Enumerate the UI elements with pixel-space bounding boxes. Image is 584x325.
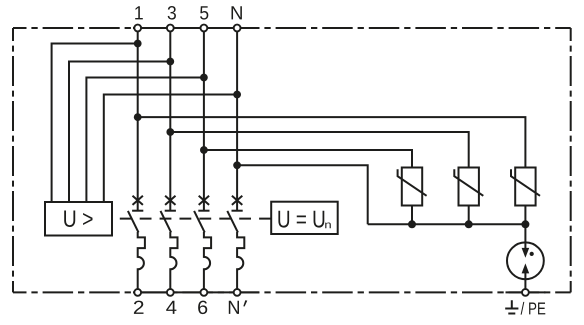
varistor MOV1 body [402,168,422,206]
wire: solid bottom border segment through terminals 2-4-6-N&#180; [133,291,259,293]
label terminal 4 [166,301,176,314]
enclosure boundary bottom edge [13,291,571,293]
breaker pole 3: fixed contact tick [198,210,209,212]
node: junction on line 5 (left tap) [200,74,208,82]
enclosure boundary left edge [12,28,14,292]
breaker pole 1: opening cross [133,196,143,205]
label terminal 6 [198,301,207,314]
node: junction on line 1 (right tap) [134,113,142,121]
voltage indicator U=Un box [271,202,338,234]
label U = Un [278,211,324,228]
wire: solid bottom border segment at PE terminal [506,291,546,293]
breaker pole 3: opening cross [199,196,209,205]
terminal N&#180; (bottom) [234,289,241,296]
node: junction on line 1 (left tap) [134,40,142,48]
terminal PE (bottom) [522,289,529,296]
wire: tap from line 5 to U&gt; monitor [86,78,203,203]
breaker pole 4: switch blade [227,211,238,233]
breaker pole 2: switch blade [161,211,172,233]
varistor MOV1 diagonal stroke [398,169,427,196]
terminal 5 (top) [201,25,208,32]
terminal 4 (bottom) [167,289,174,296]
varistor MOV2 body [459,168,479,206]
breaker pole 1: overcurrent release (notch + coil bump) [138,232,145,292]
wire: mechanical trip linkage (dashed) [112,218,271,220]
terminal 1 (top) [134,25,141,32]
wire: varistor MOV1 bottom lead [411,206,413,225]
spark gap: bottom electrode arrowhead [522,263,530,273]
wire: tap from line 1 to protection stage [138,117,526,167]
spark gap: top electrode lead [524,242,526,248]
breaker pole 2: fixed contact tick [165,210,176,212]
spark gap F1 body circle [507,242,544,279]
breaker pole 4: opening cross [232,196,242,205]
wire: tap from line 1 to U&gt; monitor [52,44,138,203]
wire: line N vertical conductor [236,28,238,210]
node: bus junction under MOV1 [408,220,416,228]
label terminal 1 [135,6,143,19]
label terminal 5 [200,6,208,19]
breaker pole 3: switch blade [194,211,205,233]
node: junction on line 5 (right tap) [200,146,208,154]
label terminal 3 [168,6,176,20]
label U> [64,211,92,228]
breaker pole 2: opening cross [165,196,175,205]
wire: varistor MOV2 bottom lead [468,206,470,225]
terminal 2 (bottom) [134,289,141,296]
wire: varistor MOV3 bottom lead [524,206,526,225]
node: junction on line N (left tap) [233,91,241,99]
node: junction on line 3 (right tap) [166,128,174,136]
wire: tap from line N to U&gt; monitor [104,95,237,203]
label / PE [521,302,546,315]
node: bus junction under MOV2 [465,220,473,228]
ground symbol [505,300,518,313]
wire: line 5 vertical conductor [203,28,205,210]
spark gap: bottom electrode lead [524,273,526,289]
enclosure boundary right edge [570,28,572,292]
terminal 3 (top) [167,25,174,32]
label terminal 2 [134,301,144,314]
breaker pole 1: switch blade [128,211,139,233]
breaker pole 3: overcurrent release (notch + coil bump) [204,232,211,292]
enclosure boundary (dash-dot frame) top edge [13,27,571,29]
varistor MOV3 diagonal stroke [511,169,540,196]
label terminal N&#180; [229,301,239,314]
terminal N (top) [234,25,241,32]
node: junction on line 3 (left tap) [166,58,174,66]
node: junction on line N (right tap) [233,161,241,169]
wire: tap from line 3 to U&gt; monitor [69,62,170,203]
breaker pole 2: overcurrent release (notch + coil bump) [170,232,177,292]
wire: tap from line N to protection stage [237,165,368,224]
wire: bus down to spark gap [524,224,526,243]
wire: common earth-side bus [368,223,526,225]
varistor MOV2 diagonal stroke [454,169,483,196]
wire: line 3 vertical conductor [169,28,171,210]
breaker pole 4: fixed contact tick [232,210,243,212]
spark gap: top electrode arrowhead [522,248,530,258]
breaker pole 1: fixed contact tick [132,210,143,212]
spark gap: trigger dot [530,252,534,256]
wire: line 1 vertical conductor [137,28,139,210]
wire: solid top border segment through terminals 1-3-5-N [133,27,259,29]
varistor MOV3 body [515,168,535,206]
overvoltage monitor U> box [45,202,112,236]
wire: tap from line 3 to protection stage [170,132,468,168]
label terminal N [232,6,242,19]
node: bus junction under MOV3 [521,220,529,228]
wire: tap from line 5 to protection stage [204,150,412,168]
terminal 6 (bottom) [201,289,208,296]
breaker pole 4: overcurrent release (notch + coil bump) [237,232,244,292]
